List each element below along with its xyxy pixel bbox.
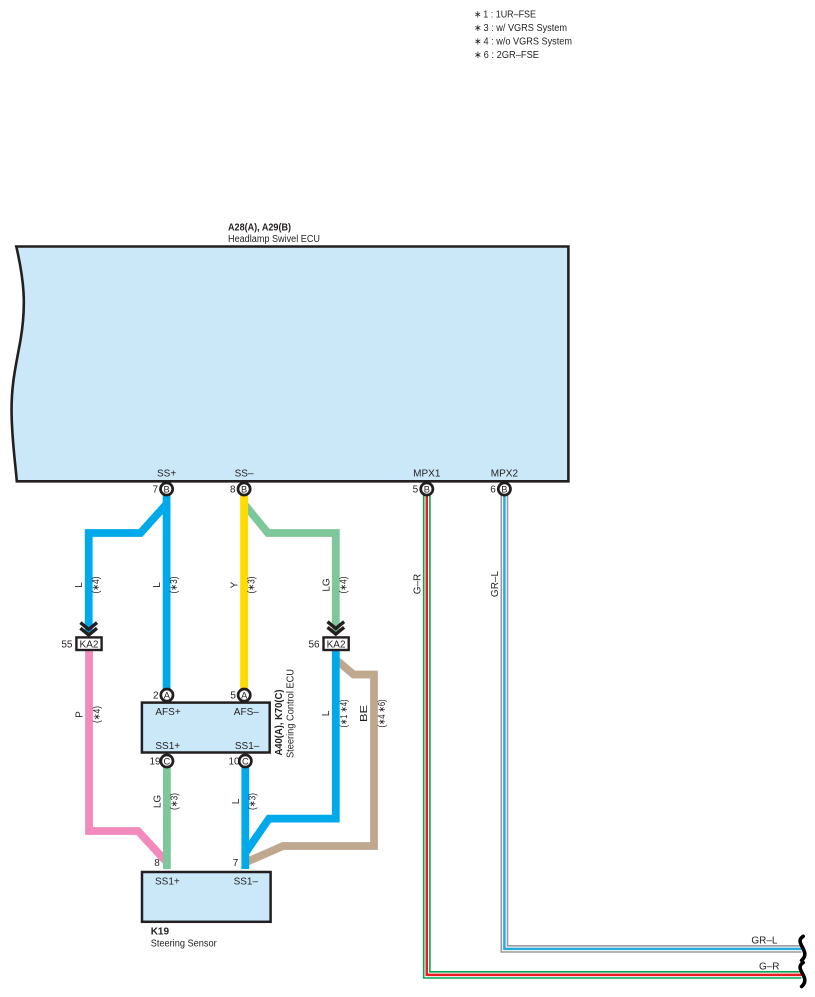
wire name label LG (*4) — [321, 577, 349, 594]
svg-text:AFS+: AFS+ — [155, 707, 180, 718]
svg-text:(∗3): (∗3) — [247, 793, 258, 810]
svg-text:SS+: SS+ — [157, 468, 176, 479]
svg-text:G–R: G–R — [759, 962, 780, 973]
wire tip V into KA2-55 — [85, 629, 93, 636]
wire tip V into KA2-56 — [332, 629, 340, 636]
wire LG (*3) from pin19 SS1+ to K19 pin8 — [163, 764, 171, 869]
wire L (*1 *4) from KA2-56 down left to K19 pin7 — [246, 650, 336, 852]
wire GR-L from MPX2 pin6 to bottom right — [504, 490, 801, 949]
chevron arrows into KA2-56 — [328, 622, 345, 629]
continuation squiggle on G-R wire — [800, 963, 805, 987]
svg-text:A: A — [164, 691, 171, 701]
pin 6 B of A28/A29 — [490, 483, 510, 496]
svg-text:KA2: KA2 — [80, 639, 99, 650]
pin 2 A of A40 — [153, 689, 173, 702]
svg-text:∗ 1 : 1UR–FSE: ∗ 1 : 1UR–FSE — [474, 9, 536, 20]
svg-text:GR–L: GR–L — [490, 571, 501, 598]
component A28(A),A29(B) Headlamp Swivel ECU box — [12, 247, 569, 482]
svg-text:L: L — [152, 582, 163, 588]
pin 7 B of A28/A29 — [152, 483, 172, 496]
svg-text:C: C — [164, 756, 171, 766]
svg-text:AFS–: AFS– — [234, 707, 259, 718]
svg-text:55: 55 — [61, 639, 73, 650]
pin 10 C of A40/K70 — [228, 755, 251, 768]
svg-text:SS1–: SS1– — [235, 741, 260, 752]
connector KA2 number 56 — [308, 622, 348, 651]
svg-text:GR–L: GR–L — [751, 936, 778, 947]
wire name label LG (*3) — [152, 793, 180, 810]
wire name label L (*1 *4) — [321, 700, 350, 728]
wire name label L (*3) — [152, 577, 180, 594]
svg-text:Steering Sensor: Steering Sensor — [151, 939, 218, 950]
wire name label L (*4) — [74, 577, 102, 594]
svg-text:L: L — [74, 582, 85, 588]
svg-text:∗ 6 : 2GR–FSE: ∗ 6 : 2GR–FSE — [474, 50, 539, 61]
svg-text:(∗3): (∗3) — [169, 793, 180, 810]
svg-text:P: P — [75, 711, 86, 718]
svg-text:SS1+: SS1+ — [155, 741, 180, 752]
pin 19 C of A40/K70 — [149, 755, 173, 768]
svg-text:B: B — [501, 484, 507, 494]
svg-text:B: B — [241, 484, 247, 494]
svg-text:∗ 3 : w/ VGRS System: ∗ 3 : w/ VGRS System — [474, 23, 567, 34]
svg-text:Headlamp Swivel ECU: Headlamp Swivel ECU — [228, 234, 320, 245]
svg-text:(∗4): (∗4) — [338, 577, 349, 594]
chevron arrows into KA2-55 — [80, 623, 97, 630]
svg-text:8: 8 — [230, 485, 236, 496]
svg-text:8: 8 — [154, 858, 160, 869]
continuation squiggle on GR-L wire — [800, 936, 805, 960]
svg-text:L: L — [231, 798, 242, 804]
svg-text:MPX1: MPX1 — [413, 468, 441, 479]
wire L from pin7 SS+ down to pin2 AFS+ — [163, 490, 171, 692]
svg-text:5: 5 — [413, 485, 419, 496]
svg-text:56: 56 — [308, 639, 320, 650]
svg-text:(∗3): (∗3) — [247, 577, 258, 594]
svg-text:LG: LG — [152, 795, 163, 809]
svg-text:7: 7 — [233, 858, 239, 869]
wire name label P (*4) — [75, 706, 104, 723]
component A40(A),K70(C) Steering Control ECU box — [142, 703, 270, 753]
svg-text:SS1–: SS1– — [234, 876, 259, 887]
svg-text:A40(A), K70(C): A40(A), K70(C) — [274, 690, 285, 756]
svg-text:(∗1 ∗4): (∗1 ∗4) — [339, 700, 350, 728]
wire LG (*4) branch from pin8 to connector KA2-56 — [244, 504, 336, 630]
svg-text:∗ 4 : w/o VGRS System: ∗ 4 : w/o VGRS System — [474, 36, 572, 47]
svg-text:Steering Control ECU: Steering Control ECU — [285, 669, 296, 758]
pin 5 B of A28/A29 — [413, 483, 433, 496]
svg-text:B: B — [424, 484, 430, 494]
wire P (*4) from KA2-55 down and right to K19 pin8 — [89, 651, 167, 863]
wire L (*3) from pin10 SS1- to K19 pin7 — [241, 764, 249, 869]
svg-text:G–R: G–R — [412, 574, 423, 595]
wire L (*4) branch from pin7 to connector KA2-55 — [89, 504, 167, 630]
svg-text:19: 19 — [149, 757, 161, 768]
svg-text:5: 5 — [230, 691, 236, 702]
svg-text:7: 7 — [152, 485, 158, 496]
wire name label BE (*4 *6) — [359, 700, 388, 728]
pin 5 A of A40 — [230, 689, 250, 702]
svg-text:K19: K19 — [151, 927, 170, 938]
svg-text:LG: LG — [321, 578, 332, 592]
svg-text:2: 2 — [153, 691, 159, 702]
svg-text:MPX2: MPX2 — [491, 468, 519, 479]
svg-text:L: L — [321, 710, 332, 716]
svg-text:SS–: SS– — [235, 468, 254, 479]
connector KA2 number 55 — [61, 623, 101, 651]
svg-text:(∗4): (∗4) — [92, 706, 103, 723]
wire BE (*4 *6) branch from L wire to K19 pin7 — [247, 660, 374, 862]
wire name label Y (*3) — [230, 577, 258, 594]
svg-text:KA2: KA2 — [327, 639, 346, 650]
svg-text:6: 6 — [490, 485, 496, 496]
wire name label L (*3) lower — [231, 793, 258, 810]
component K19 Steering Sensor box — [142, 872, 271, 922]
svg-text:A: A — [241, 691, 248, 701]
wire G-R from MPX1 pin5 to bottom right — [427, 490, 802, 975]
svg-text:(∗3): (∗3) — [169, 577, 180, 594]
svg-text:C: C — [242, 756, 249, 766]
svg-text:A28(A), A29(B): A28(A), A29(B) — [228, 223, 291, 234]
svg-text:BE: BE — [359, 705, 370, 722]
svg-text:(∗4): (∗4) — [91, 577, 102, 594]
svg-text:B: B — [163, 484, 169, 494]
svg-text:SS1+: SS1+ — [155, 876, 180, 887]
svg-text:Y: Y — [230, 581, 241, 588]
pin 8 B of A28/A29 — [230, 483, 250, 496]
wire Y from pin8 SS- down to pin5 AFS- — [240, 490, 248, 692]
svg-text:(∗4 ∗6): (∗4 ∗6) — [377, 700, 388, 728]
